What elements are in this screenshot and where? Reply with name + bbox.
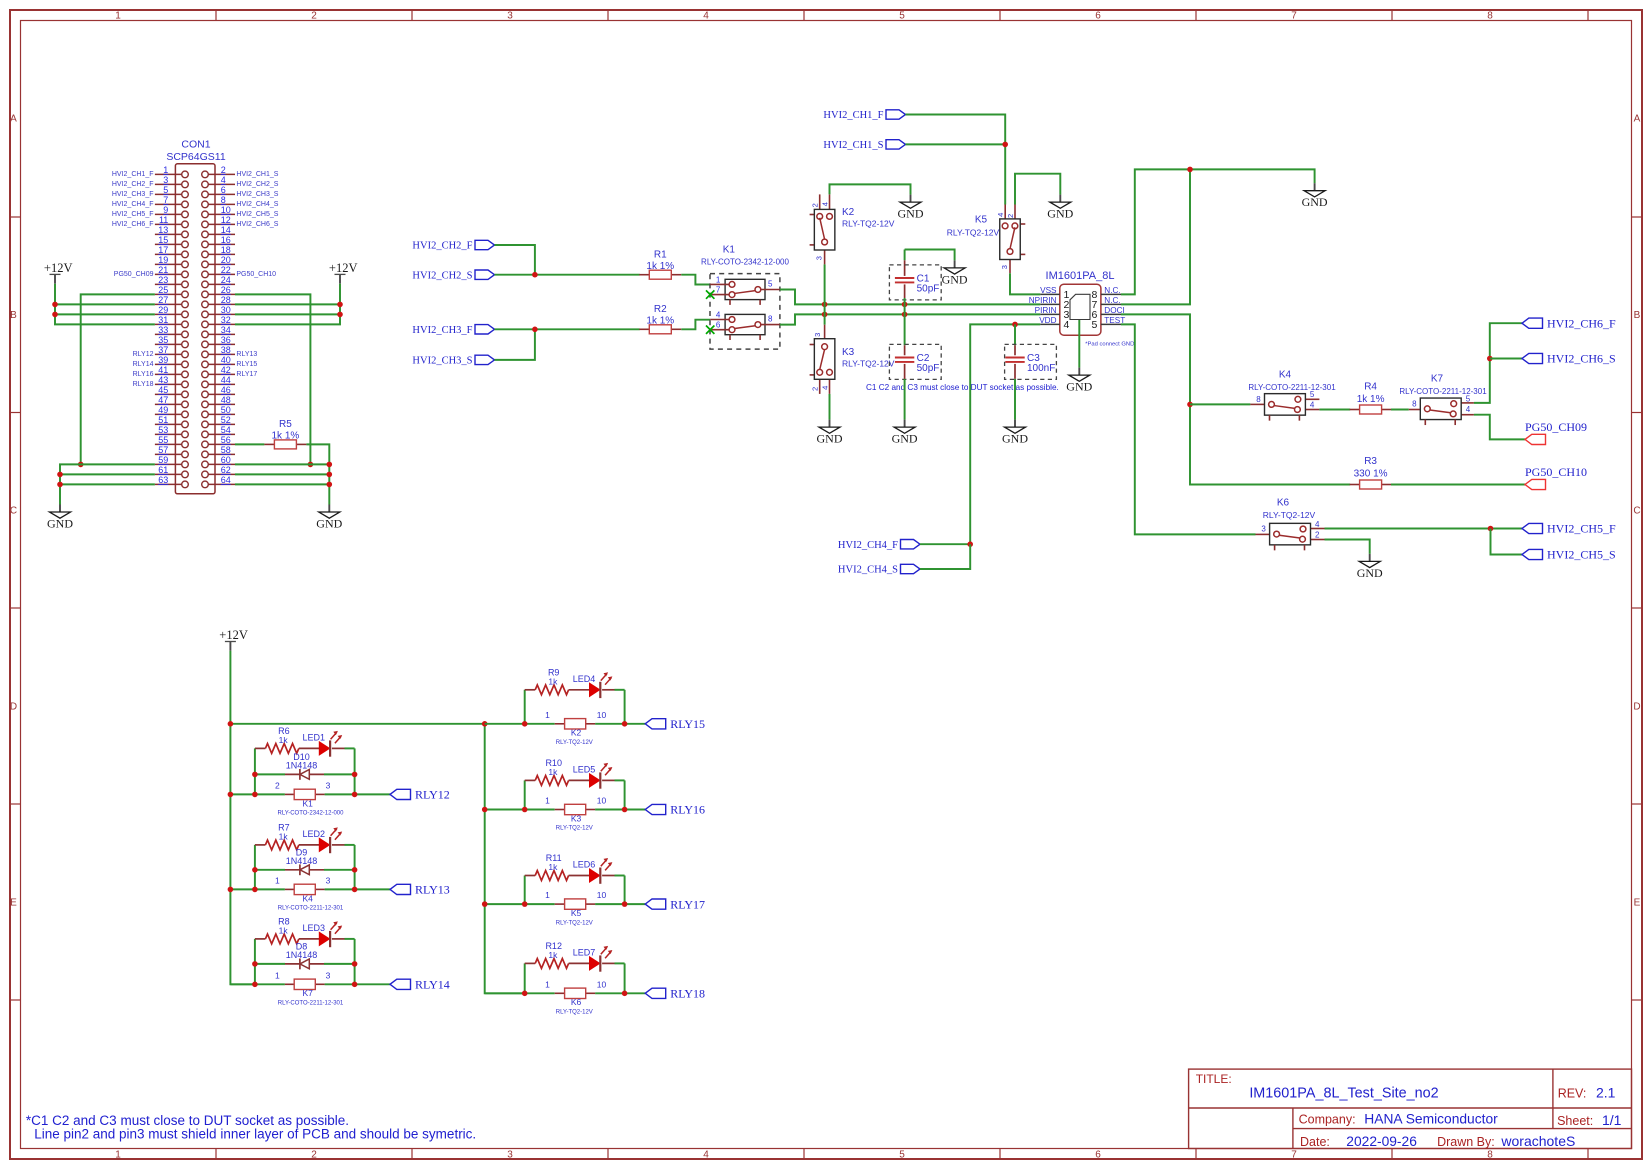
svg-text:1k 1%: 1k 1% — [646, 261, 674, 272]
relay K1 half box pins 1,7,5 — [725, 279, 765, 299]
LED LED5 — [569, 763, 615, 789]
svg-text:5: 5 — [899, 1149, 905, 1160]
svg-text:+12V: +12V — [44, 261, 73, 275]
wire C3 to GND — [1014, 379, 1016, 420]
svg-text:RLY-COTO-2211-12-301: RLY-COTO-2211-12-301 — [1248, 383, 1336, 392]
svg-text:10: 10 — [597, 979, 607, 989]
svg-text:HVI2_CH5_S: HVI2_CH5_S — [1547, 548, 1616, 562]
ground under K3 — [829, 420, 831, 428]
svg-text:3: 3 — [507, 1149, 513, 1160]
svg-text:10: 10 — [597, 890, 607, 900]
svg-text:K2: K2 — [571, 728, 582, 738]
CON1 pin 1 — [155, 173, 182, 175]
wire CH4_S — [920, 544, 970, 569]
wire coil right to port — [595, 723, 645, 725]
svg-text:GND: GND — [1047, 207, 1073, 221]
svg-text:HVI2_CH5_S: HVI2_CH5_S — [236, 211, 278, 218]
svg-text:C: C — [1633, 506, 1640, 517]
svg-text:D: D — [10, 702, 17, 713]
svg-text:HVI2_CH3_F: HVI2_CH3_F — [412, 325, 472, 336]
wire RLY13 row from rail — [230, 888, 285, 890]
junction — [622, 807, 628, 813]
junction — [1487, 356, 1493, 362]
svg-text:32: 32 — [221, 315, 231, 325]
svg-text:HVI2_CH1_S: HVI2_CH1_S — [236, 171, 278, 178]
svg-text:K3: K3 — [842, 347, 855, 358]
ground under C2 — [904, 420, 906, 428]
wire coil right to port — [595, 992, 645, 994]
svg-text:2: 2 — [221, 165, 226, 175]
svg-text:59: 59 — [158, 455, 168, 465]
CON1 pin 41 — [155, 373, 182, 375]
svg-text:HVI2_CH2_S: HVI2_CH2_S — [412, 270, 472, 281]
wire RLY16 group bracket right — [624, 780, 626, 809]
junction — [228, 792, 234, 798]
svg-text:R2: R2 — [654, 304, 667, 315]
svg-text:HVI2_CH3_F: HVI2_CH3_F — [112, 191, 154, 198]
svg-text:E: E — [10, 898, 17, 909]
resistor R5 — [264, 419, 306, 449]
IC pin 1 VSS — [1040, 293, 1060, 295]
svg-text:2: 2 — [811, 203, 820, 207]
wire K2 pin4 to GND — [830, 184, 911, 194]
net port RLY14 — [390, 979, 411, 989]
junction — [252, 982, 258, 988]
CON1 pin 49 — [155, 413, 182, 415]
svg-text:4: 4 — [1466, 405, 1471, 414]
svg-text:17: 17 — [158, 245, 168, 255]
svg-text:LED1: LED1 — [303, 733, 326, 743]
svg-text:RLY-TQ2-12V: RLY-TQ2-12V — [842, 359, 895, 369]
svg-text:RLY-TQ2-12V: RLY-TQ2-12V — [556, 1010, 593, 1016]
svg-text:10: 10 — [597, 710, 607, 720]
svg-text:RLY-COTO-2342-12-000: RLY-COTO-2342-12-000 — [701, 258, 789, 267]
svg-text:4: 4 — [820, 202, 829, 206]
svg-text:LED7: LED7 — [573, 948, 596, 958]
svg-text:3: 3 — [326, 970, 331, 980]
wire RLY18 group bracket right — [624, 963, 626, 993]
svg-text:28: 28 — [221, 295, 231, 305]
wire RLY15 group bracket left — [524, 690, 526, 724]
svg-text:1: 1 — [163, 165, 168, 175]
CON1 pin 4 — [208, 183, 235, 185]
wire R3 to PG50_CH10 — [1391, 484, 1525, 486]
junction — [327, 482, 333, 488]
svg-text:N.C.: N.C. — [1104, 296, 1120, 305]
svg-text:46: 46 — [221, 385, 231, 395]
wire CH5_S branch — [1491, 529, 1523, 555]
wire coil right to port — [325, 793, 390, 795]
CON1 pin 37 — [155, 353, 182, 355]
net port HVI2_CH1_F — [886, 110, 906, 119]
svg-text:50pF: 50pF — [917, 284, 940, 295]
svg-text:+12V: +12V — [219, 628, 248, 642]
svg-text:RLY13: RLY13 — [415, 883, 450, 897]
CON1 pin 32 — [208, 323, 235, 325]
svg-text:2: 2 — [311, 1149, 317, 1160]
wire RLY15 row from feeder — [485, 723, 555, 725]
CON1 pin 42 — [208, 373, 235, 375]
svg-text:GND: GND — [817, 432, 843, 446]
svg-text:5: 5 — [1091, 319, 1097, 331]
wire CH2_S to R1 — [495, 274, 640, 276]
junction — [352, 961, 358, 967]
junction — [228, 887, 234, 893]
junction — [52, 302, 58, 308]
svg-text:RLY12: RLY12 — [415, 788, 450, 802]
LED LED3 — [299, 921, 345, 947]
wire RLY15 group bracket right — [624, 690, 626, 724]
junction — [57, 472, 63, 478]
svg-text:62: 62 — [221, 465, 231, 475]
wire C3 top — [1014, 324, 1016, 345]
wire VDD row with CH4 riser — [970, 324, 1040, 544]
svg-text:Line pin2 and pin3 must shield: Line pin2 and pin3 must shield inner lay… — [34, 1127, 476, 1142]
svg-text:60: 60 — [221, 455, 231, 465]
no-connect X on K1 pin 7 — [706, 290, 714, 298]
CON1 pin 51 — [155, 423, 182, 425]
svg-text:4: 4 — [221, 175, 226, 185]
CON1 pin 34 — [208, 333, 235, 335]
junction — [1012, 322, 1018, 328]
svg-text:40: 40 — [221, 355, 231, 365]
wire R5 right to GND riser — [306, 444, 329, 504]
CON1 pin 54 — [208, 433, 235, 435]
capacitor C2 lead down — [904, 364, 906, 379]
wire IC pin5 TEST down to K6 — [1121, 324, 1256, 534]
net port RLY13 — [390, 884, 411, 894]
junction — [822, 312, 828, 318]
junction — [482, 721, 488, 727]
svg-text:K1: K1 — [302, 798, 313, 808]
svg-text:1N4148: 1N4148 — [286, 761, 318, 771]
svg-text:42: 42 — [221, 365, 231, 375]
CON1 pin 25 — [155, 293, 182, 295]
svg-text:29: 29 — [158, 305, 168, 315]
capacitor C2 dashed box — [889, 344, 941, 379]
CON1 pin 7 — [155, 203, 182, 205]
svg-text:4: 4 — [820, 386, 829, 390]
CON1 pin 13 — [155, 233, 182, 235]
CON1 pin 29 — [155, 313, 182, 315]
svg-text:R4: R4 — [1364, 382, 1377, 393]
svg-text:K6: K6 — [1277, 498, 1290, 509]
svg-text:1k 1%: 1k 1% — [1357, 394, 1385, 405]
CON1 pin 10 — [208, 213, 235, 215]
svg-text:4: 4 — [1064, 319, 1070, 331]
svg-text:8: 8 — [1412, 399, 1417, 408]
svg-text:25: 25 — [158, 285, 168, 295]
svg-text:1k 1%: 1k 1% — [646, 316, 674, 327]
wire RLY14 group bracket left — [254, 939, 256, 984]
junction — [1002, 142, 1008, 148]
CON1 pin 5 — [155, 193, 182, 195]
diode D8 1N4148 — [285, 942, 324, 970]
CON1 pin 50 — [208, 413, 235, 415]
ground right of IC top — [1314, 183, 1316, 191]
svg-text:RLY12: RLY12 — [133, 351, 154, 358]
svg-text:43: 43 — [158, 375, 168, 385]
svg-text:3: 3 — [1000, 265, 1009, 269]
svg-text:58: 58 — [221, 445, 231, 455]
svg-text:50pF: 50pF — [917, 363, 940, 374]
wire IC pin6 DOCI down to K4 and R3 — [1121, 314, 1350, 484]
wire pin60 row — [235, 463, 329, 465]
svg-text:HVI2_CH3_S: HVI2_CH3_S — [412, 356, 472, 367]
resistor R7 — [255, 822, 299, 849]
svg-text:330 1%: 330 1% — [1354, 469, 1388, 480]
CON1 pin 53 — [155, 433, 182, 435]
CON1 pin 31 — [155, 323, 182, 325]
svg-text:PG50_CH09: PG50_CH09 — [1525, 420, 1587, 434]
ground near K2 — [910, 195, 912, 203]
svg-text:3: 3 — [507, 10, 513, 21]
svg-text:1k: 1k — [279, 831, 289, 841]
net port HVI2_CH4_F — [901, 540, 921, 549]
ground under C3 — [1014, 420, 1016, 428]
CON1 pin 8 — [208, 203, 235, 205]
capacitor C3 lead down — [1014, 364, 1016, 379]
svg-text:K6: K6 — [571, 997, 582, 1007]
svg-text:1/1: 1/1 — [1602, 1112, 1622, 1128]
CON1 pin 60 — [208, 463, 235, 465]
svg-text:1: 1 — [545, 710, 550, 720]
connector CON1 body — [175, 164, 215, 494]
wire diode row — [255, 773, 285, 775]
net port HVI2_CH6_F — [1522, 318, 1543, 328]
svg-text:RLY17: RLY17 — [236, 371, 257, 378]
wire coil right to port — [595, 903, 645, 905]
svg-text:HANA Semiconductor: HANA Semiconductor — [1364, 1112, 1498, 1127]
IC pin 4 VDD — [1040, 323, 1060, 325]
svg-text:4: 4 — [1315, 520, 1320, 529]
relay coil K6 — [545, 979, 606, 1015]
relay K5 — [947, 205, 1026, 274]
svg-text:HVI2_CH1_F: HVI2_CH1_F — [823, 110, 883, 121]
svg-text:C: C — [10, 506, 17, 517]
svg-text:2: 2 — [811, 387, 820, 391]
junction — [252, 887, 258, 893]
wire DOCI branch to K4 — [1190, 403, 1250, 405]
IC pin 3 PIRIN — [1040, 313, 1060, 315]
svg-text:30: 30 — [221, 305, 231, 315]
IC pin 8 N.C. — [1101, 293, 1121, 295]
svg-text:SCP64GS11: SCP64GS11 — [166, 151, 225, 163]
svg-text:Sheet:: Sheet: — [1557, 1114, 1593, 1128]
svg-text:13: 13 — [158, 225, 168, 235]
junction — [522, 901, 528, 907]
svg-text:RLY-TQ2-12V: RLY-TQ2-12V — [556, 920, 593, 926]
svg-text:44: 44 — [221, 375, 231, 385]
svg-text:GND: GND — [1066, 380, 1092, 394]
net port HVI2_CH5_F — [1522, 523, 1543, 533]
svg-text:E: E — [1634, 898, 1641, 909]
wire RLY13 group bracket right — [354, 845, 356, 890]
wire K2 pin3 down to K3 pin3 — [824, 264, 826, 324]
svg-text:18: 18 — [221, 245, 231, 255]
svg-text:6: 6 — [1095, 10, 1101, 21]
svg-text:HVI2_CH1_F: HVI2_CH1_F — [112, 171, 154, 178]
relay K7 — [1399, 374, 1487, 426]
LED LED7 — [569, 946, 615, 972]
net port HVI2_CH2_F — [475, 240, 495, 249]
svg-text:HVI2_CH4_S: HVI2_CH4_S — [838, 565, 898, 576]
CON1 pin 44 — [208, 383, 235, 385]
CON1 pin 30 — [208, 313, 235, 315]
wire CH1_F to K5 — [906, 115, 1006, 205]
svg-text:2: 2 — [311, 10, 317, 21]
junction — [622, 991, 628, 997]
wire CH2_F join CH2_S — [495, 245, 535, 275]
svg-text:4: 4 — [996, 213, 1005, 217]
CON1 pin 11 — [155, 223, 182, 225]
svg-text:RLY-TQ2-12V: RLY-TQ2-12V — [947, 228, 1000, 238]
svg-text:39: 39 — [158, 355, 168, 365]
svg-text:22: 22 — [221, 265, 231, 275]
IC pin 2 NPIRIN — [1040, 303, 1060, 305]
diode D10 1N4148 — [285, 752, 324, 780]
wire K4 pin4 to R4 — [1319, 409, 1350, 411]
wire diode row — [255, 963, 285, 965]
CON1 pin 52 — [208, 423, 235, 425]
CON1 pin 17 — [155, 253, 182, 255]
resistor R3 — [1350, 456, 1392, 489]
svg-text:11: 11 — [159, 215, 168, 225]
junction — [52, 312, 58, 318]
svg-text:HVI2_CH5_F: HVI2_CH5_F — [1547, 522, 1616, 536]
CON1 pin 26 — [208, 293, 235, 295]
wire pin27 row — [55, 303, 155, 305]
IC pin 6 DOCI — [1101, 313, 1121, 315]
svg-text:K7: K7 — [1431, 374, 1444, 385]
junction — [252, 867, 258, 873]
wire RLY14 row from rail — [230, 983, 285, 985]
svg-text:R3: R3 — [1364, 456, 1377, 467]
svg-text:1: 1 — [115, 1149, 121, 1160]
svg-text:24: 24 — [221, 275, 231, 285]
svg-text:HVI2_CH6_S: HVI2_CH6_S — [236, 221, 278, 228]
CON1 pin 63 — [155, 483, 182, 485]
capacitor C2 lead up — [904, 345, 906, 355]
junction — [522, 721, 528, 727]
svg-text:K5: K5 — [975, 215, 988, 226]
LED LED1 — [299, 731, 345, 757]
ground near K5 — [1059, 195, 1061, 203]
svg-text:5: 5 — [899, 10, 905, 21]
svg-text:D: D — [1633, 702, 1640, 713]
svg-text:RLY15: RLY15 — [670, 717, 705, 731]
CON1 pin 28 — [208, 303, 235, 305]
svg-text:57: 57 — [158, 445, 168, 455]
capacitor C1 lead down — [904, 284, 906, 298]
wire CH3_F to R2 — [495, 328, 640, 330]
svg-text:RLY16: RLY16 — [670, 803, 705, 817]
ground left of CON1 — [59, 505, 61, 513]
resistor R6 — [255, 726, 299, 753]
svg-text:14: 14 — [221, 225, 231, 235]
wire RLY13 group bracket left — [254, 845, 256, 890]
CON1 pin 23 — [155, 283, 182, 285]
svg-text:1: 1 — [716, 275, 721, 284]
svg-text:RLY14: RLY14 — [415, 978, 450, 992]
svg-text:GND: GND — [942, 272, 968, 286]
svg-text:HVI2_CH4_F: HVI2_CH4_F — [112, 201, 154, 208]
svg-text:K3: K3 — [571, 813, 582, 823]
svg-text:52: 52 — [221, 415, 231, 425]
svg-text:Drawn By:: Drawn By: — [1437, 1135, 1495, 1149]
junction — [532, 327, 538, 333]
junction — [822, 302, 828, 308]
capacitor C1 lead up to GND corner — [904, 250, 906, 261]
resistor R10 — [525, 758, 569, 785]
wire CH3_S join — [495, 329, 535, 360]
LED LED6 — [569, 858, 615, 884]
svg-text:5: 5 — [163, 185, 168, 195]
svg-text:HVI2_CH3_S: HVI2_CH3_S — [236, 191, 278, 198]
CON1 pin 45 — [155, 393, 182, 395]
relay coil K3 — [545, 796, 606, 832]
junction — [1488, 526, 1494, 532]
junction — [522, 807, 528, 813]
net port RLY12 — [390, 789, 411, 799]
svg-text:RLY-COTO-2211-12-301: RLY-COTO-2211-12-301 — [278, 906, 344, 912]
junction — [622, 901, 628, 907]
wire IC pin8 N.C. to GND — [1121, 169, 1315, 294]
svg-text:27: 27 — [158, 295, 168, 305]
resistor R8 — [255, 916, 299, 943]
wire K7 pin4 to PG50_CH09 — [1474, 415, 1525, 440]
svg-text:C1 C2 and C3 must close to DUT: C1 C2 and C3 must close to DUT socket as… — [866, 383, 1059, 392]
svg-text:8: 8 — [768, 314, 773, 323]
CON1 pin 40 — [208, 363, 235, 365]
junction — [337, 312, 343, 318]
junction — [1187, 402, 1193, 408]
wire R4 to K7 — [1391, 409, 1409, 411]
CON1 pin 2 — [208, 173, 235, 175]
svg-text:RLY-TQ2-12V: RLY-TQ2-12V — [556, 826, 593, 832]
junction — [352, 792, 358, 798]
wire K1 pin8 to PIRIN bus — [780, 314, 1040, 324]
wire +12V right down — [235, 284, 340, 325]
svg-text:K1: K1 — [723, 244, 736, 255]
svg-text:23: 23 — [158, 275, 168, 285]
svg-text:HVI2_CH6_F: HVI2_CH6_F — [1547, 316, 1616, 330]
net port PG50_CH10 — [1525, 479, 1546, 489]
net port HVI2_CH5_S — [1522, 549, 1543, 559]
CON1 pin 20 — [208, 263, 235, 265]
CON1 pin 43 — [155, 383, 182, 385]
svg-text:36: 36 — [221, 335, 231, 345]
svg-text:10: 10 — [221, 205, 231, 215]
title block — [1189, 1069, 1632, 1149]
junction — [967, 541, 973, 547]
relay coil K1 — [275, 780, 344, 816]
wire coil right to port — [325, 888, 390, 890]
wire K5 pin3 to IC VSS — [1010, 273, 1040, 294]
ground near C1 — [954, 260, 956, 268]
CON1 pin 46 — [208, 393, 235, 395]
svg-text:1k: 1k — [548, 862, 558, 872]
svg-text:26: 26 — [221, 285, 231, 295]
svg-text:RLY-COTO-2211-12-301: RLY-COTO-2211-12-301 — [1399, 387, 1487, 396]
net port PG50_CH09 — [1525, 434, 1546, 444]
LED LED2 — [299, 827, 345, 853]
CON1 pin 59 — [155, 463, 182, 465]
resistor R4 — [1350, 382, 1392, 415]
wire RLY17 group bracket right — [624, 876, 626, 905]
svg-text:K7: K7 — [302, 988, 313, 998]
svg-text:+12V: +12V — [329, 261, 358, 275]
